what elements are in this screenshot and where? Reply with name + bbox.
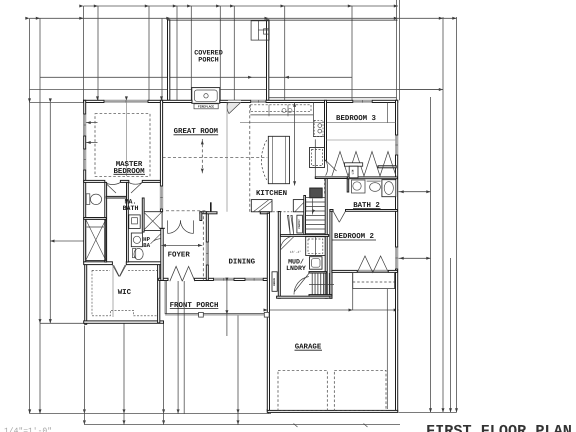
svg-text:BEDROOM 3: BEDROOM 3 [336, 115, 376, 123]
svg-text:PANTRY: PANTRY [298, 219, 301, 229]
svg-text:PORCH: PORCH [198, 57, 218, 65]
svg-text:WIC: WIC [118, 289, 132, 297]
svg-text:BATH: BATH [123, 205, 139, 212]
svg-text:LNDRY: LNDRY [286, 265, 306, 272]
svg-text:18'-4": 18'-4" [290, 250, 302, 254]
svg-text:FOYER: FOYER [168, 252, 191, 260]
svg-text:BA: BA [143, 242, 150, 249]
svg-text:FIRST FLOOR PLAN: FIRST FLOOR PLAN [426, 422, 572, 432]
svg-text:KITCHEN: KITCHEN [256, 190, 287, 198]
svg-text:LIN: LIN [351, 169, 354, 174]
svg-text:1/4"=1'-0": 1/4"=1'-0" [4, 427, 52, 432]
svg-text:DINING: DINING [228, 259, 255, 267]
svg-text:BENCH: BENCH [273, 277, 276, 285]
svg-text:BEDROOM: BEDROOM [113, 168, 145, 176]
svg-text:FIREPLACE: FIREPLACE [198, 106, 214, 109]
